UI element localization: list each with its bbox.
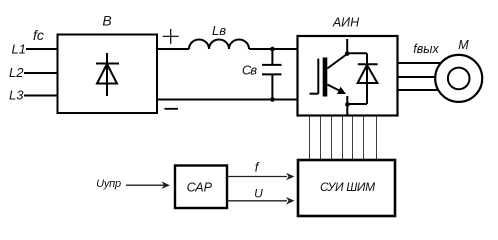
svg-text:Cв: Cв (242, 62, 257, 77)
svg-text:В: В (102, 13, 111, 29)
svg-text:Lв: Lв (212, 23, 226, 38)
controller block SAR (175, 166, 227, 209)
diode D2 freewheel (347, 53, 378, 104)
svg-text:L2: L2 (9, 65, 24, 80)
svg-text:АИН: АИН (332, 15, 360, 29)
plus sign (163, 29, 179, 44)
transistor Q1 (IGBT) (310, 39, 348, 115)
svg-text:М: М (458, 38, 469, 52)
minus sign (165, 108, 179, 110)
PWM block SUI SHIM (298, 160, 395, 216)
inductor Lv (189, 40, 249, 50)
svg-text:Uупр: Uупр (96, 178, 121, 190)
junction top of Cv (270, 47, 275, 52)
svg-text:САР: САР (187, 181, 213, 195)
wire motor phase 2 (398, 76, 438, 78)
wire L1 input (26, 48, 58, 50)
diode D1 inside rectifier (96, 53, 119, 96)
junction collector node (345, 51, 350, 56)
svg-text:L3: L3 (9, 88, 24, 103)
wire DC bus positive right (249, 48, 298, 50)
wire Uupr arrow (126, 181, 170, 189)
junction emitter node (345, 102, 350, 107)
wire L3 input (24, 95, 58, 97)
wire L2 input (24, 72, 58, 74)
motor M (435, 55, 482, 102)
wire U arrow (227, 197, 295, 205)
svg-text:L1: L1 (12, 42, 26, 57)
wire f arrow (227, 173, 295, 181)
svg-text:fвых: fвых (413, 42, 439, 56)
svg-text:fc: fc (33, 27, 44, 43)
gate control lines (310, 117, 377, 161)
svg-text:СУИ ШИМ: СУИ ШИМ (320, 180, 375, 194)
rectifier block B (58, 35, 158, 114)
svg-text:U: U (254, 186, 263, 200)
capacitor Cv (262, 49, 282, 100)
junction bottom of Cv (270, 97, 275, 102)
wire DC bus positive left (157, 48, 189, 50)
inverter block AIN (298, 36, 398, 116)
wire motor phase 3 (398, 89, 441, 91)
wire DC bus negative (157, 99, 298, 101)
wire motor phase 1 (398, 62, 443, 64)
